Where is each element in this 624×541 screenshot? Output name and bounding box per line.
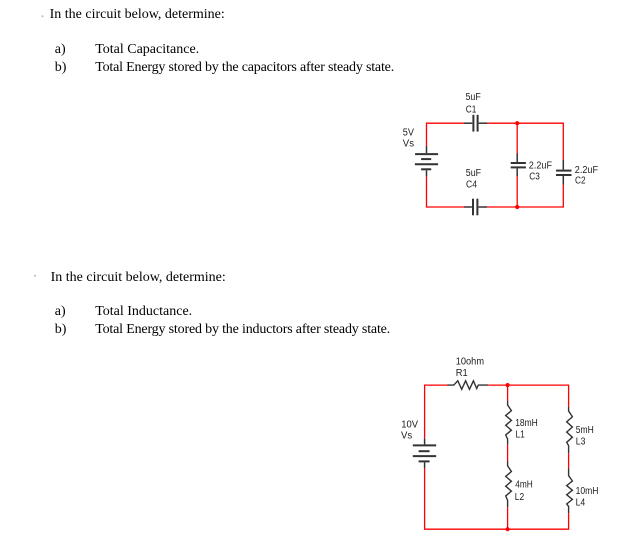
svg-text:5mH: 5mH xyxy=(576,425,594,436)
inductor L4 xyxy=(567,468,573,513)
capacitor C1 xyxy=(464,115,487,132)
svg-text:10V: 10V xyxy=(401,420,418,431)
node junction bottom middle xyxy=(506,527,510,531)
svg-text:In the circuit below, determin: In the circuit below, determine: xyxy=(51,270,226,285)
wire: middle branch lower xyxy=(516,176,518,207)
svg-text:2.2uF: 2.2uF xyxy=(575,165,598,176)
wire: top-left from battery + up and across to C1 xyxy=(427,123,465,146)
svg-text:5uF: 5uF xyxy=(466,168,481,179)
wire: top from R1 to top-right corner down to L3 xyxy=(488,385,568,407)
svg-text:Total Inductance.: Total Inductance. xyxy=(95,304,192,319)
svg-text:L3: L3 xyxy=(576,437,586,448)
capacitor C4 xyxy=(464,199,487,216)
svg-text:10mH: 10mH xyxy=(576,486,599,497)
svg-text:b): b) xyxy=(55,322,67,337)
svg-text:L4: L4 xyxy=(576,497,586,508)
svg-text:C4: C4 xyxy=(466,180,477,191)
wire: bottom + left branch lower xyxy=(425,468,569,529)
svg-text:2.2uF: 2.2uF xyxy=(529,160,552,171)
node junction top middle xyxy=(515,121,519,125)
svg-text:5V: 5V xyxy=(403,128,414,139)
svg-text:10ohm: 10ohm xyxy=(456,357,484,368)
svg-text:a): a) xyxy=(55,304,66,319)
wire: left branch upper + top-left to R1 xyxy=(425,385,448,438)
svg-text:Total Capacitance.: Total Capacitance. xyxy=(95,42,199,57)
svg-text:b): b) xyxy=(55,60,67,75)
inductor L3 xyxy=(567,407,573,454)
wire: middle branch above L1 xyxy=(507,385,509,401)
battery source Vs (5V) xyxy=(415,146,438,176)
inductor L2 xyxy=(506,461,512,507)
svg-text:C1: C1 xyxy=(466,105,477,116)
svg-text:C2: C2 xyxy=(575,176,586,187)
svg-text:C3: C3 xyxy=(529,171,540,182)
battery source Vs (10V) xyxy=(413,438,436,468)
wire: middle branch between L1 and L2 xyxy=(507,445,509,462)
svg-text:L1: L1 xyxy=(516,430,526,441)
resistor R1 xyxy=(448,381,489,390)
wire: middle branch upper xyxy=(516,123,518,154)
svg-text:Total Energy stored by the cap: Total Energy stored by the capacitors af… xyxy=(95,60,394,75)
svg-text:a): a) xyxy=(55,42,66,57)
svg-text:18mH: 18mH xyxy=(515,418,538,429)
wire: middle branch below L2 xyxy=(507,507,509,529)
svg-text:Total Energy stored by the ind: Total Energy stored by the inductors aft… xyxy=(95,322,390,337)
svg-text:Vs: Vs xyxy=(401,431,412,442)
wire: top from C1 to top-right corner down to C2 xyxy=(487,123,563,160)
capacitor C3 xyxy=(511,154,526,177)
capacitor C2 xyxy=(556,160,572,185)
svg-text:L2: L2 xyxy=(515,492,525,503)
node junction bottom middle xyxy=(515,205,519,209)
wire: right branch between L3 and L4 xyxy=(568,453,570,468)
svg-text:5uF: 5uF xyxy=(466,92,481,103)
wire: bottom-left from C4 to battery negative xyxy=(427,176,465,207)
node junction top middle xyxy=(506,383,510,387)
svg-text:R1: R1 xyxy=(456,368,468,379)
inductor L1 xyxy=(506,401,512,445)
svg-text:4mH: 4mH xyxy=(515,480,533,491)
wire: right branch lower to bottom wire xyxy=(487,185,563,208)
svg-text:In the circuit below, determin: In the circuit below, determine: xyxy=(50,7,225,22)
svg-text:Vs: Vs xyxy=(403,138,414,149)
